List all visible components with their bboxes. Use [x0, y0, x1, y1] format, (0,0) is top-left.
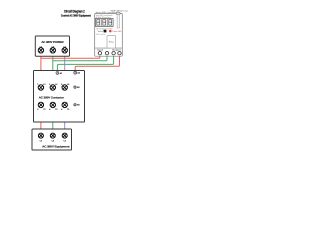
- wire L2 green vertical power-to-contactor: [52, 50, 54, 85]
- antenna connector cap: [116, 12, 120, 14]
- wire L1 red vertical power-to-contactor: [40, 50, 42, 85]
- svg-text:L2: L2: [55, 84, 57, 86]
- svg-text:L1: L1: [43, 84, 45, 86]
- power terminal L1: [38, 48, 43, 53]
- contactor terminal 3/L2: [50, 85, 55, 90]
- wire L3 purple vertical contactor-to-equipment: [64, 107, 66, 136]
- contactor terminal 1/L1: [38, 85, 43, 90]
- subtitle: [61, 14, 91, 17]
- power LED: [109, 30, 112, 32]
- svg-text:Circuit Diagram 2: Circuit Diagram 2: [64, 9, 85, 14]
- svg-text:T1: T1: [43, 109, 45, 111]
- device black button: [104, 30, 107, 33]
- AC 380V POWER box: [35, 36, 69, 56]
- contactor aux contact NO top: [74, 86, 80, 89]
- power terminal L3: [62, 48, 67, 53]
- device terminal 1: [98, 52, 101, 55]
- svg-text:Control AC 380V Equipment: Control AC 380V Equipment: [61, 14, 91, 17]
- svg-text:6: 6: [61, 109, 62, 111]
- svg-text:T2: T2: [55, 109, 57, 111]
- svg-text:4: 4: [49, 108, 50, 111]
- svg-text:Switch: Switch: [98, 30, 103, 33]
- svg-text:L3: L3: [67, 84, 69, 86]
- svg-text:2: 2: [37, 109, 38, 111]
- equipment terminal L1: [38, 133, 43, 138]
- svg-text:AC 380V Equipment: AC 380V Equipment: [42, 144, 69, 148]
- contactor terminal 2/T1: [38, 102, 43, 107]
- wire green branch L2 to device terminal 2: [53, 53, 107, 61]
- digit 8 cell2: [103, 20, 106, 25]
- wire L3 purple vertical power-to-contactor: [64, 50, 66, 85]
- contactor aux contact NO bottom: [74, 104, 80, 107]
- wire L1 red vertical contactor-to-equipment: [40, 107, 42, 136]
- AC 380V Equipment box: [32, 129, 72, 150]
- equipment terminal L2: [50, 133, 55, 138]
- device U1 body: [95, 14, 123, 57]
- svg-text:AC 380V Contactor: AC 380V Contactor: [39, 95, 65, 99]
- device terminal 4: [118, 52, 121, 55]
- digit 8 cell3: [109, 20, 112, 25]
- svg-text:Output: Output: [112, 48, 121, 51]
- contactor coil terminal A1: [56, 72, 63, 75]
- digital display: [95, 19, 113, 27]
- svg-text:L3: L3: [64, 141, 66, 143]
- svg-text:AC 380V POWER: AC 380V POWER: [41, 40, 64, 44]
- equipment terminal L3: [62, 133, 67, 138]
- digit 8 cell1: [97, 20, 100, 25]
- contactor terminal 4/T2: [50, 102, 55, 107]
- wire red device terminal 4 to contactor coil A2: [75, 53, 119, 71]
- device terminal 3: [112, 52, 115, 55]
- svg-text:L2: L2: [52, 141, 54, 143]
- device terminal strip separator: [95, 47, 123, 49]
- relay box: [107, 36, 116, 49]
- power terminal L2: [50, 48, 55, 53]
- wire L2 green vertical contactor-to-equipment: [52, 107, 54, 136]
- antenna connector stem: [117, 15, 119, 29]
- svg-text:Relay: Relay: [109, 42, 114, 44]
- contactor terminal 5/L3: [62, 85, 67, 90]
- leader line to antenna: [118, 12, 120, 14]
- wire green device terminal 3 to contactor coil A1: [57, 53, 113, 71]
- contactor coil terminal A2: [74, 71, 81, 74]
- AC 380V Contactor box: [34, 71, 85, 123]
- svg-text:L1: L1: [40, 141, 42, 143]
- title: [64, 9, 85, 14]
- svg-text:Input: Input: [97, 48, 104, 51]
- device terminal 2: [105, 52, 108, 55]
- svg-text:T3: T3: [67, 109, 69, 111]
- contactor terminal 6/T3: [62, 102, 67, 107]
- svg-text:Power LED: Power LED: [112, 31, 122, 33]
- wire red branch L1 to device terminal 1: [41, 53, 100, 58]
